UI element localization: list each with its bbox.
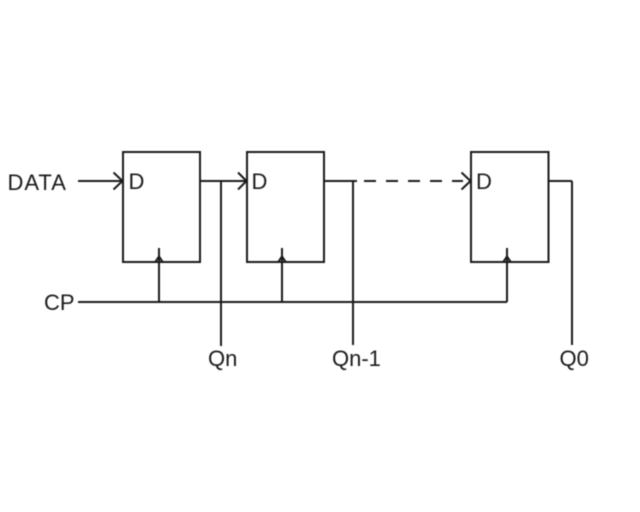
D flip-flop U3 [471,152,549,262]
clock caret of U1 [155,256,163,262]
clock pin wire of U3 [506,248,508,302]
svg-text:D: D [129,169,145,194]
wire node Q0 vertical [571,181,573,345]
wire node Qn vertical [220,181,222,346]
wire U1 Q to U2 D [200,180,246,182]
svg-text:D: D [252,169,268,194]
svg-text:CP: CP [44,290,75,315]
wire U2 Q output [324,180,357,182]
svg-text:DATA: DATA [8,170,67,195]
arrowhead into U2 D input [238,173,247,190]
clock pin wire of U1 [158,248,160,302]
arrowhead into U3 D input [462,173,471,190]
svg-text:Q0: Q0 [560,346,589,371]
svg-text:D: D [476,169,492,194]
wire node Qn-1 vertical [352,181,354,345]
D flip-flop U2 [247,152,324,262]
wire DATA input [78,180,122,182]
clock caret of U3 [503,256,511,262]
clock caret of U2 [278,256,286,262]
svg-text:Qn-1: Qn-1 [332,346,381,371]
arrowhead into U1 D input [114,173,123,190]
wire U3 Q output horizontal [549,180,573,182]
wire dashed continuation [364,180,463,182]
clock pin wire of U2 [281,248,283,302]
wire CP bus [78,301,507,303]
svg-text:Qn: Qn [208,346,237,371]
D flip-flop U1 [123,152,200,262]
